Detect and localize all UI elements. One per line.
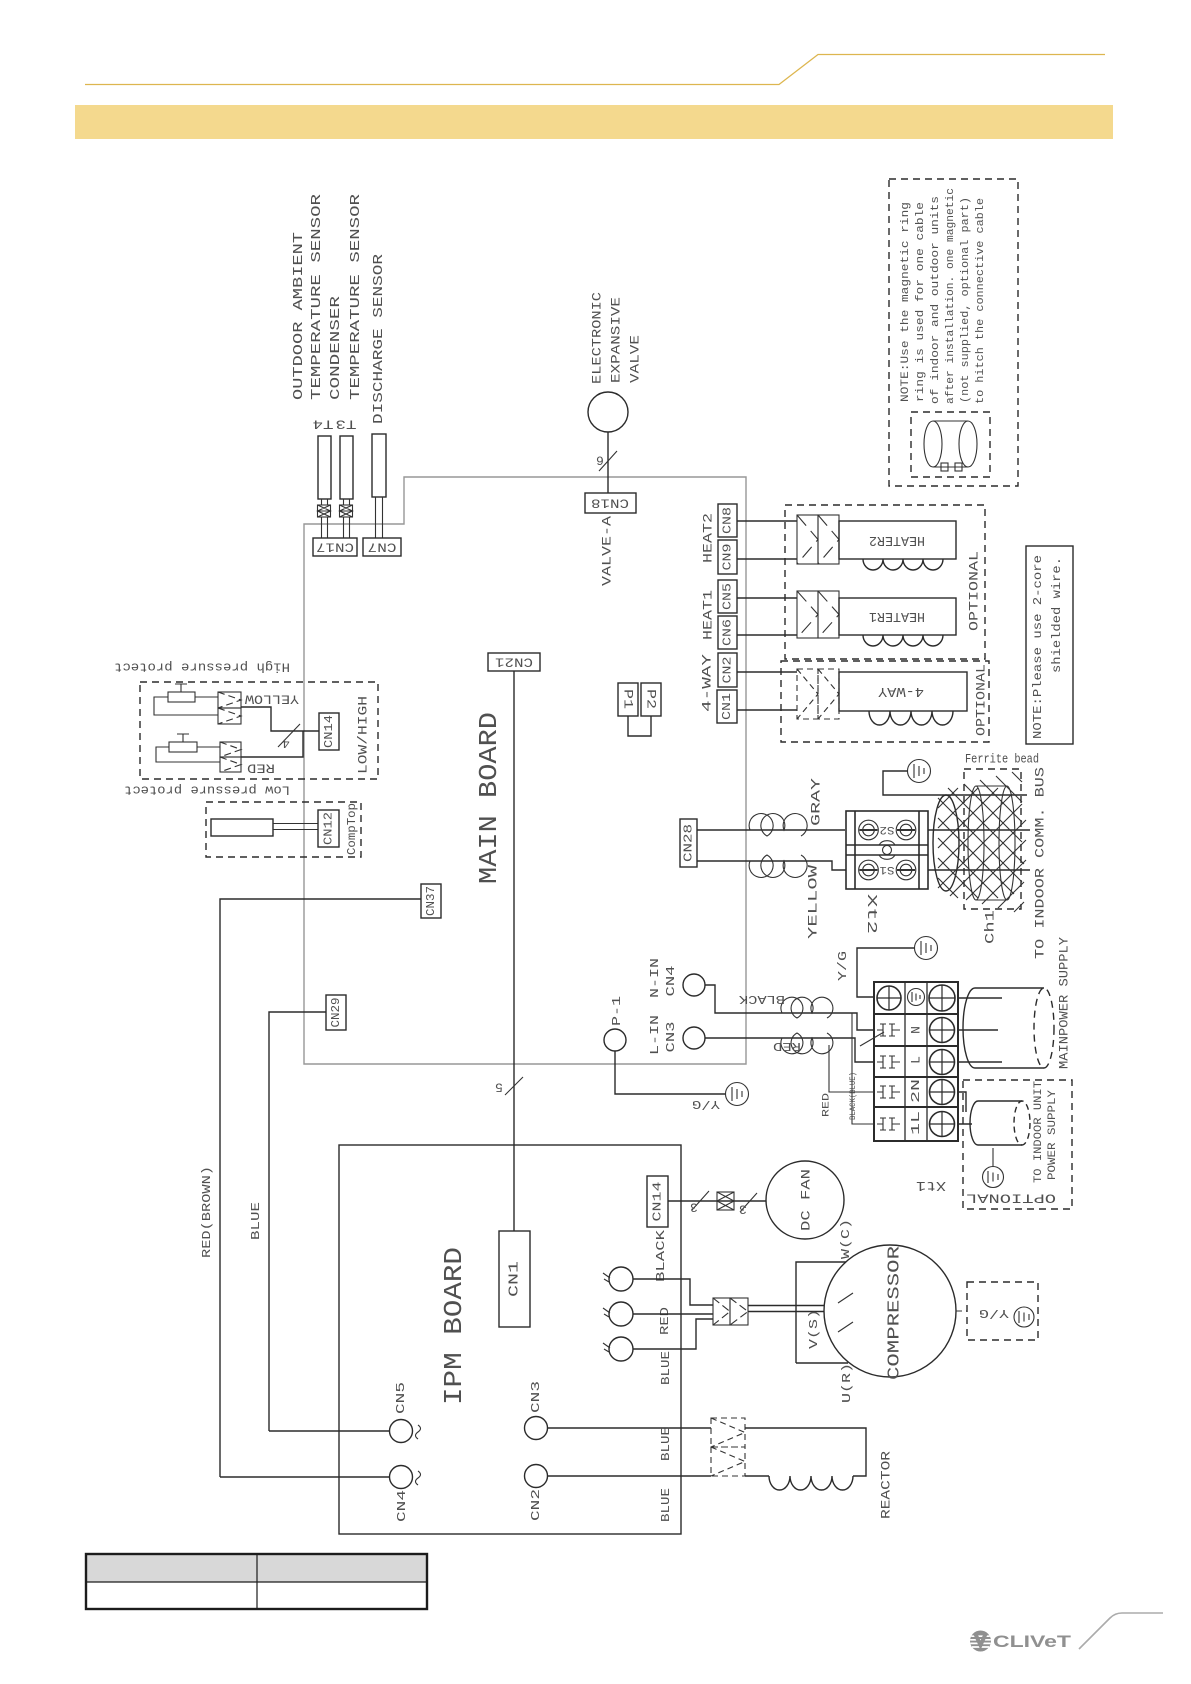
svg-text:CN5: CN5 (721, 583, 735, 610)
wire T3 leads (344, 499, 350, 538)
compressor winding ticks (838, 1293, 853, 1332)
svg-text:S2: S2 (880, 823, 895, 835)
svg-text:CN14: CN14 (651, 1182, 665, 1222)
label Low pressure protect (124, 783, 290, 798)
wire CN2 to reactor plug (548, 1475, 712, 1477)
slash 4-wire mark (278, 724, 300, 747)
label Xt2 (863, 894, 879, 934)
ground (compressor) (1014, 1307, 1034, 1327)
terminal XT2 (846, 811, 928, 889)
label CN4 (power) (664, 966, 678, 997)
terminal block XT1 (874, 982, 958, 1141)
connector CN9 (718, 540, 737, 574)
svg-text:(not supplied, optional part): (not supplied, optional part) (960, 197, 972, 403)
svg-text:MAINPOWER SUPPLY: MAINPOWER SUPPLY (1057, 937, 1072, 1069)
connector CN5 (heat) (718, 580, 737, 613)
connector CN3 power (683, 1027, 705, 1049)
svg-text:W(C): W(C) (839, 1219, 853, 1259)
label 4 (282, 736, 290, 751)
note ring text l1 (900, 202, 912, 402)
reactor coil (769, 1476, 853, 1490)
IPM board outline (339, 1145, 681, 1534)
label 3 (b) (739, 1202, 747, 1217)
svg-text:Y/G: Y/G (979, 1306, 1009, 1320)
label 4-WAY (700, 654, 715, 712)
wire T4 leads (322, 499, 328, 538)
wire low switch loop (156, 747, 220, 762)
label RED (V) (658, 1307, 672, 1335)
wire V to plug (633, 1313, 713, 1315)
svg-text:BLACK: BLACK (654, 1229, 668, 1282)
svg-text:3: 3 (690, 1200, 698, 1215)
svg-text:TEMPERATURE SENSOR: TEMPERATURE SENSOR (348, 193, 364, 400)
svg-text:Xt1: Xt1 (916, 1177, 946, 1193)
svg-text:RED: RED (822, 1093, 833, 1117)
svg-text:YELLOW: YELLOW (245, 692, 299, 707)
label BLACK (738, 992, 785, 1006)
note text line1 (1031, 555, 1045, 739)
svg-text:CN7: CN7 (368, 540, 397, 555)
svg-text:GRAY: GRAY (809, 778, 824, 826)
label 5 (495, 1080, 503, 1095)
label REACTOR (879, 1451, 894, 1519)
label BLACK(BLUE) (848, 1072, 858, 1120)
svg-text:CN21: CN21 (495, 655, 533, 670)
svg-text:N-IN: N-IN (648, 958, 662, 998)
label TO INDOOR COMM. BUS (1033, 767, 1048, 959)
wire CN29 blue (269, 1012, 326, 1431)
label GRAY (809, 778, 824, 826)
svg-text:Ferrite bead: Ferrite bead (965, 752, 1039, 767)
svg-text:CN14: CN14 (322, 715, 336, 748)
connector P-1 (604, 1029, 626, 1051)
label YELLOW (245, 692, 299, 707)
label OPTIONAL (4way) (974, 664, 989, 736)
note box 2-core (1026, 546, 1073, 744)
svg-text:CN37: CN37 (424, 886, 438, 916)
label L (909, 1056, 924, 1064)
header gold banner (75, 105, 1113, 139)
wire compressor ground dashed (956, 1310, 967, 1312)
svg-text:VALVE-A: VALVE-A (600, 516, 615, 586)
label YELLOW (806, 865, 821, 939)
connector P1 (618, 683, 638, 716)
connector CN7 (363, 538, 401, 556)
connector W circle (603, 1337, 633, 1361)
slash 6-wire mark (599, 451, 617, 471)
wire shield to bead (883, 771, 1027, 795)
svg-text:CN28: CN28 (682, 824, 696, 862)
svg-text:5: 5 (495, 1080, 503, 1095)
svg-text:NOTE:Use the magnetic ring: NOTE:Use the magnetic ring (900, 202, 912, 402)
connector CN2 (4-way) (718, 653, 737, 687)
svg-text:ELECTRONIC: ELECTRONIC (590, 292, 605, 384)
wire CN28 gray (697, 829, 845, 831)
svg-text:CN17: CN17 (316, 540, 354, 555)
magnetic ring inner dashed box (911, 412, 990, 477)
ferrite bead crosshatch (938, 772, 1026, 912)
discharge sensor body (372, 434, 386, 497)
svg-text:CONDENSER: CONDENSER (328, 295, 344, 400)
ground (comm shield) (908, 760, 931, 783)
revision table (86, 1554, 427, 1609)
wire CompTop leads (273, 824, 318, 830)
svg-text:T3: T3 (336, 417, 357, 432)
wire red jumper row4 (829, 1045, 874, 1092)
label TEMPERATURE SENSOR (T3) (348, 193, 364, 400)
svg-text:CLIVeT: CLIVeT (993, 1633, 1071, 1651)
svg-text:CN3: CN3 (664, 1022, 678, 1053)
wire high to CN14 (241, 707, 319, 731)
connector CN18 (585, 493, 636, 513)
svg-text:P1: P1 (621, 689, 636, 709)
svg-text:DISCHARGE SENSOR: DISCHARGE SENSOR (371, 253, 387, 424)
svg-text:ring is used for one cable: ring is used for one cable (915, 202, 927, 402)
wire comm S2 (928, 829, 1030, 831)
crimp splice T3 (340, 505, 353, 517)
svg-text:L: L (909, 1056, 924, 1064)
svg-text:OPTIONAL: OPTIONAL (966, 1191, 1056, 1206)
main power cable cylinder (963, 988, 1054, 1068)
svg-text:RED: RED (773, 1039, 801, 1053)
label EXPANSIVE (609, 297, 624, 383)
wire low to junction (241, 731, 303, 757)
label 1L (909, 1111, 923, 1135)
svg-text:HEATER1: HEATER1 (869, 608, 925, 624)
4way coil element (839, 672, 967, 711)
svg-text:BLUE: BLUE (249, 1202, 263, 1240)
label ELECTRONIC (590, 292, 605, 384)
svg-text:OPTIONAL: OPTIONAL (967, 551, 982, 631)
svg-text:to hitch the connective cable: to hitch the connective cable (975, 198, 987, 404)
svg-text:4-WAY: 4-WAY (877, 683, 924, 699)
wire black(blue) jumper row5 (852, 1013, 874, 1124)
svg-text:BLACK: BLACK (738, 992, 785, 1006)
label BLUE (W) (659, 1351, 673, 1385)
svg-text:BLUE: BLUE (659, 1427, 673, 1461)
wire CN8 to heater relay (737, 520, 797, 522)
label CN4 (IPM) (395, 1490, 409, 1522)
wires XT1 to indoor cable (958, 1092, 972, 1124)
label RED (power) (773, 1039, 801, 1053)
label TO INDOOR UNIT (1033, 1081, 1045, 1183)
connector U circle (603, 1267, 633, 1291)
label CONDENSER (328, 295, 344, 400)
connector pair reactor (711, 1418, 745, 1476)
note text line2 (1050, 557, 1064, 673)
low/high pressure protect dashed box (140, 682, 378, 779)
wire U to plug (633, 1279, 713, 1305)
optional indoor power dashed box (963, 1080, 1072, 1209)
main board label (474, 712, 504, 884)
svg-text:REACTOR: REACTOR (879, 1451, 894, 1519)
label T4 (312, 417, 333, 432)
connector pair compressor (713, 1298, 748, 1325)
coil loops red wire (781, 1033, 833, 1054)
label LOW/HIGH (356, 696, 371, 774)
svg-text:after installation. one magnet: after installation. one magnetic (945, 188, 957, 404)
wire CN14 to DC fan (668, 1200, 766, 1202)
wire P1-P2 jumper (628, 716, 651, 736)
connector CN1 (IPM) (499, 1231, 530, 1327)
wire CN3 to reactor plug (548, 1427, 712, 1429)
svg-text:CN9: CN9 (721, 544, 735, 571)
4way optional dashed box (781, 661, 989, 742)
label 2N (909, 1079, 923, 1103)
label High pressure protect (114, 660, 290, 675)
svg-text:BLUE: BLUE (659, 1488, 673, 1522)
label BLUE (left) (249, 1202, 263, 1240)
IPM board label (439, 1247, 469, 1405)
wires XT1 to main power cable (958, 998, 1002, 1062)
svg-text:CN3: CN3 (529, 1381, 543, 1413)
wire high switch loop (154, 697, 218, 715)
svg-text:NOTE:Please use 2-core: NOTE:Please use 2-core (1031, 555, 1045, 739)
clivet logo mark (970, 1631, 991, 1652)
connector CN3 circle (525, 1417, 548, 1440)
svg-text:CN4: CN4 (664, 966, 678, 997)
svg-text:RED: RED (247, 761, 275, 776)
ferrite bead dashed box (964, 769, 1021, 909)
svg-text:Y/G: Y/G (836, 951, 850, 981)
wire CN21 to CN1 (513, 671, 515, 1231)
label P-1 (610, 996, 624, 1026)
connector pair 4way (dashed) (797, 669, 839, 719)
svg-text:CN12: CN12 (322, 812, 336, 845)
clivet logo text (993, 1633, 1071, 1651)
label CN3 (power) (664, 1022, 678, 1053)
heater2 element (839, 521, 956, 559)
svg-text:6: 6 (596, 453, 604, 468)
connector CN6 (718, 616, 737, 649)
label BLUE (CN3 wire) (659, 1427, 673, 1461)
svg-text:1L: 1L (909, 1111, 923, 1135)
svg-text:LOW/HIGH: LOW/HIGH (356, 696, 371, 774)
svg-text:CN8: CN8 (721, 507, 735, 534)
note ring text l5 (960, 197, 972, 403)
4way coil (869, 711, 953, 725)
connector CN14 (IPM) (647, 1176, 668, 1227)
connector CN4 circle (390, 1466, 413, 1489)
label U(R) (840, 1363, 854, 1403)
terminal contacts rows2-5 (877, 1024, 900, 1130)
cable end ellipse (933, 795, 959, 891)
note ring text l4 (945, 188, 957, 404)
svg-text:CN29: CN29 (329, 998, 343, 1028)
slash 3-wire mark b (740, 1193, 757, 1212)
label HEAT2 (701, 513, 716, 563)
svg-text:Low pressure protect: Low pressure protect (124, 783, 290, 798)
label S2 (880, 823, 895, 835)
svg-text:CompTop: CompTop (345, 803, 359, 855)
label RED (jumper) (822, 1093, 833, 1117)
crimp splice T4 (318, 505, 331, 517)
svg-text:Ch1: Ch1 (983, 910, 998, 944)
wire valve to CN18 (607, 432, 609, 493)
label S1 (879, 863, 894, 875)
label OPTIONAL (heaters) (967, 551, 982, 631)
slash 5-wire mark (505, 1077, 523, 1095)
header gold rule line (85, 55, 1105, 85)
svg-text:Y/G: Y/G (692, 1097, 720, 1111)
svg-text:BLUE: BLUE (659, 1351, 673, 1385)
label Xt1 (916, 1177, 946, 1193)
label N-IN (648, 958, 662, 998)
label VALVE-A (600, 516, 615, 586)
note ring text l2 (915, 202, 927, 402)
svg-text:COMPRESSOR: COMPRESSOR (886, 1246, 905, 1380)
wire CN6 to heater relay (737, 634, 797, 636)
label 6 (596, 453, 604, 468)
label DISCHARGE SENSOR (371, 253, 387, 424)
wire CN2 to 4way relay (737, 671, 797, 673)
slash 3-wire mark a (692, 1191, 709, 1210)
svg-text:TO INDOOR COMM. BUS: TO INDOOR COMM. BUS (1033, 767, 1048, 959)
wire reactor bottom (745, 1475, 769, 1477)
svg-text:TO INDOOR UNIT: TO INDOOR UNIT (1033, 1081, 1045, 1183)
heaters optional dashed box (785, 505, 985, 659)
ground (indoor optional) (992, 1148, 994, 1166)
connector P2 (641, 683, 661, 716)
connector CN8 (718, 504, 737, 537)
connector pair high (218, 692, 241, 724)
wire CN5 to heater relay (737, 597, 797, 599)
label CN5 (IPM) (394, 1382, 408, 1414)
label Ferrite bead (965, 752, 1039, 767)
svg-text:P-1: P-1 (610, 996, 624, 1026)
wire CN9 to heater relay (737, 558, 797, 560)
connector CN4 power (683, 974, 705, 996)
label T3 (336, 417, 357, 432)
connector CN1 (4-way) (717, 690, 737, 723)
ferrite bead cylinder (968, 786, 1015, 900)
svg-text:YELLOW: YELLOW (806, 865, 821, 939)
cable to compressor double line (748, 1306, 824, 1312)
connector CN37 (421, 884, 441, 918)
note ring text l3 (930, 196, 942, 404)
svg-text:P2: P2 (644, 689, 659, 709)
svg-text:IPM BOARD: IPM BOARD (439, 1247, 469, 1405)
heater2 coil (863, 559, 943, 570)
svg-text:4: 4 (282, 736, 290, 751)
label RED(BROWN) (200, 1166, 214, 1258)
svg-text:U(R): U(R) (840, 1363, 854, 1403)
label W(C) (839, 1219, 853, 1259)
svg-text:Xt2: Xt2 (863, 894, 879, 934)
svg-text:High pressure protect: High pressure protect (114, 660, 290, 675)
label POWER SUPPLY (1047, 1090, 1059, 1180)
wire N black (705, 985, 874, 1030)
magnetic ring cylinder (924, 421, 977, 471)
connector V circle (603, 1302, 633, 1326)
svg-text:shielded wire.: shielded wire. (1050, 557, 1064, 673)
svg-text:L-IN: L-IN (648, 1015, 662, 1055)
ground (P-1 Y/G) (726, 1083, 749, 1106)
connector CN21 (488, 653, 540, 671)
svg-text:2N: 2N (909, 1079, 923, 1103)
wire jumper diagonal (860, 1032, 884, 1046)
svg-text:CN2: CN2 (529, 1489, 543, 1521)
connector pair heater1 (797, 591, 839, 638)
svg-text:HEAT2: HEAT2 (701, 513, 716, 563)
connector CN29 (326, 995, 346, 1030)
label OUTDOOR AMBIENT (291, 232, 307, 400)
wire discharge sensor leads (376, 497, 383, 538)
label V(S) (807, 1309, 821, 1349)
label BLUE (CN2 wire) (659, 1488, 673, 1522)
label TO (comm) (1057, 937, 1072, 1069)
svg-text:CN2: CN2 (721, 657, 735, 684)
main board outline (304, 477, 746, 1064)
svg-text:RED(BROWN): RED(BROWN) (200, 1166, 214, 1258)
connector CN2 circle (525, 1465, 548, 1488)
connector CN5 circle (390, 1420, 413, 1443)
wire compressor U(R) branch (796, 1362, 848, 1364)
indoor power cable cylinder (970, 1101, 1030, 1145)
svg-text:of indoor and outdoor units: of indoor and outdoor units (930, 196, 942, 404)
CompTop sensor body (211, 819, 273, 836)
wire CN28 yellow (697, 861, 846, 870)
clivet swoosh (1079, 1613, 1163, 1649)
label Ch1 (983, 910, 998, 944)
svg-text:OPTIONAL: OPTIONAL (974, 664, 989, 736)
coil loops yellow wire (749, 855, 807, 877)
label VALVE (628, 335, 643, 383)
tilde CN4 (416, 1471, 421, 1485)
connector CN17 (313, 538, 357, 556)
connector CN12 (318, 810, 339, 847)
coil loops black wire (781, 997, 833, 1018)
svg-text:CN6: CN6 (721, 619, 735, 646)
wire red(brown) to CN4 (220, 1476, 390, 1478)
connector CN14 (pressure) (319, 713, 339, 750)
svg-text:CN1: CN1 (507, 1261, 523, 1297)
svg-text:T4: T4 (312, 417, 333, 432)
label CN3 (IPM) (529, 1381, 543, 1413)
coil loops gray wire (749, 814, 807, 836)
wire reactor top (745, 1428, 866, 1476)
connector pair heater2 (797, 515, 839, 564)
electronic expansive valve (588, 392, 628, 432)
note ring text l6 (975, 198, 987, 404)
svg-text:EXPANSIVE: EXPANSIVE (609, 297, 624, 383)
wire comm S1 (928, 869, 1030, 871)
label HEAT1 (701, 590, 716, 640)
label BLACK (U) (654, 1229, 668, 1282)
DC fan motor (766, 1161, 844, 1239)
label L-IN (648, 1015, 662, 1055)
wire CN37 red(brown) (220, 899, 421, 1477)
label RED (247, 761, 275, 776)
label CompTop (345, 803, 359, 855)
svg-text:RED: RED (658, 1307, 672, 1335)
svg-text:TEMPERATURE SENSOR: TEMPERATURE SENSOR (309, 193, 325, 400)
svg-text:OUTDOOR AMBIENT: OUTDOOR AMBIENT (291, 232, 307, 400)
high pressure switch (168, 684, 195, 702)
label TEMPERATURE SENSOR (T4) (309, 193, 325, 400)
svg-text:V(S): V(S) (807, 1309, 821, 1349)
magnetic ring note dashed box (889, 179, 1018, 486)
wire CN1 to 4way relay (737, 709, 797, 711)
CompTop dashed box (206, 802, 361, 857)
svg-text:MAIN BOARD: MAIN BOARD (474, 712, 504, 884)
wire P-1 to ground (615, 1051, 726, 1094)
label Y/G (terminal) (836, 951, 850, 981)
svg-text:CN5: CN5 (394, 1382, 408, 1414)
svg-text:CN1: CN1 (720, 693, 734, 720)
label CN2 (IPM) (529, 1489, 543, 1521)
label 3 (a) (690, 1200, 698, 1215)
